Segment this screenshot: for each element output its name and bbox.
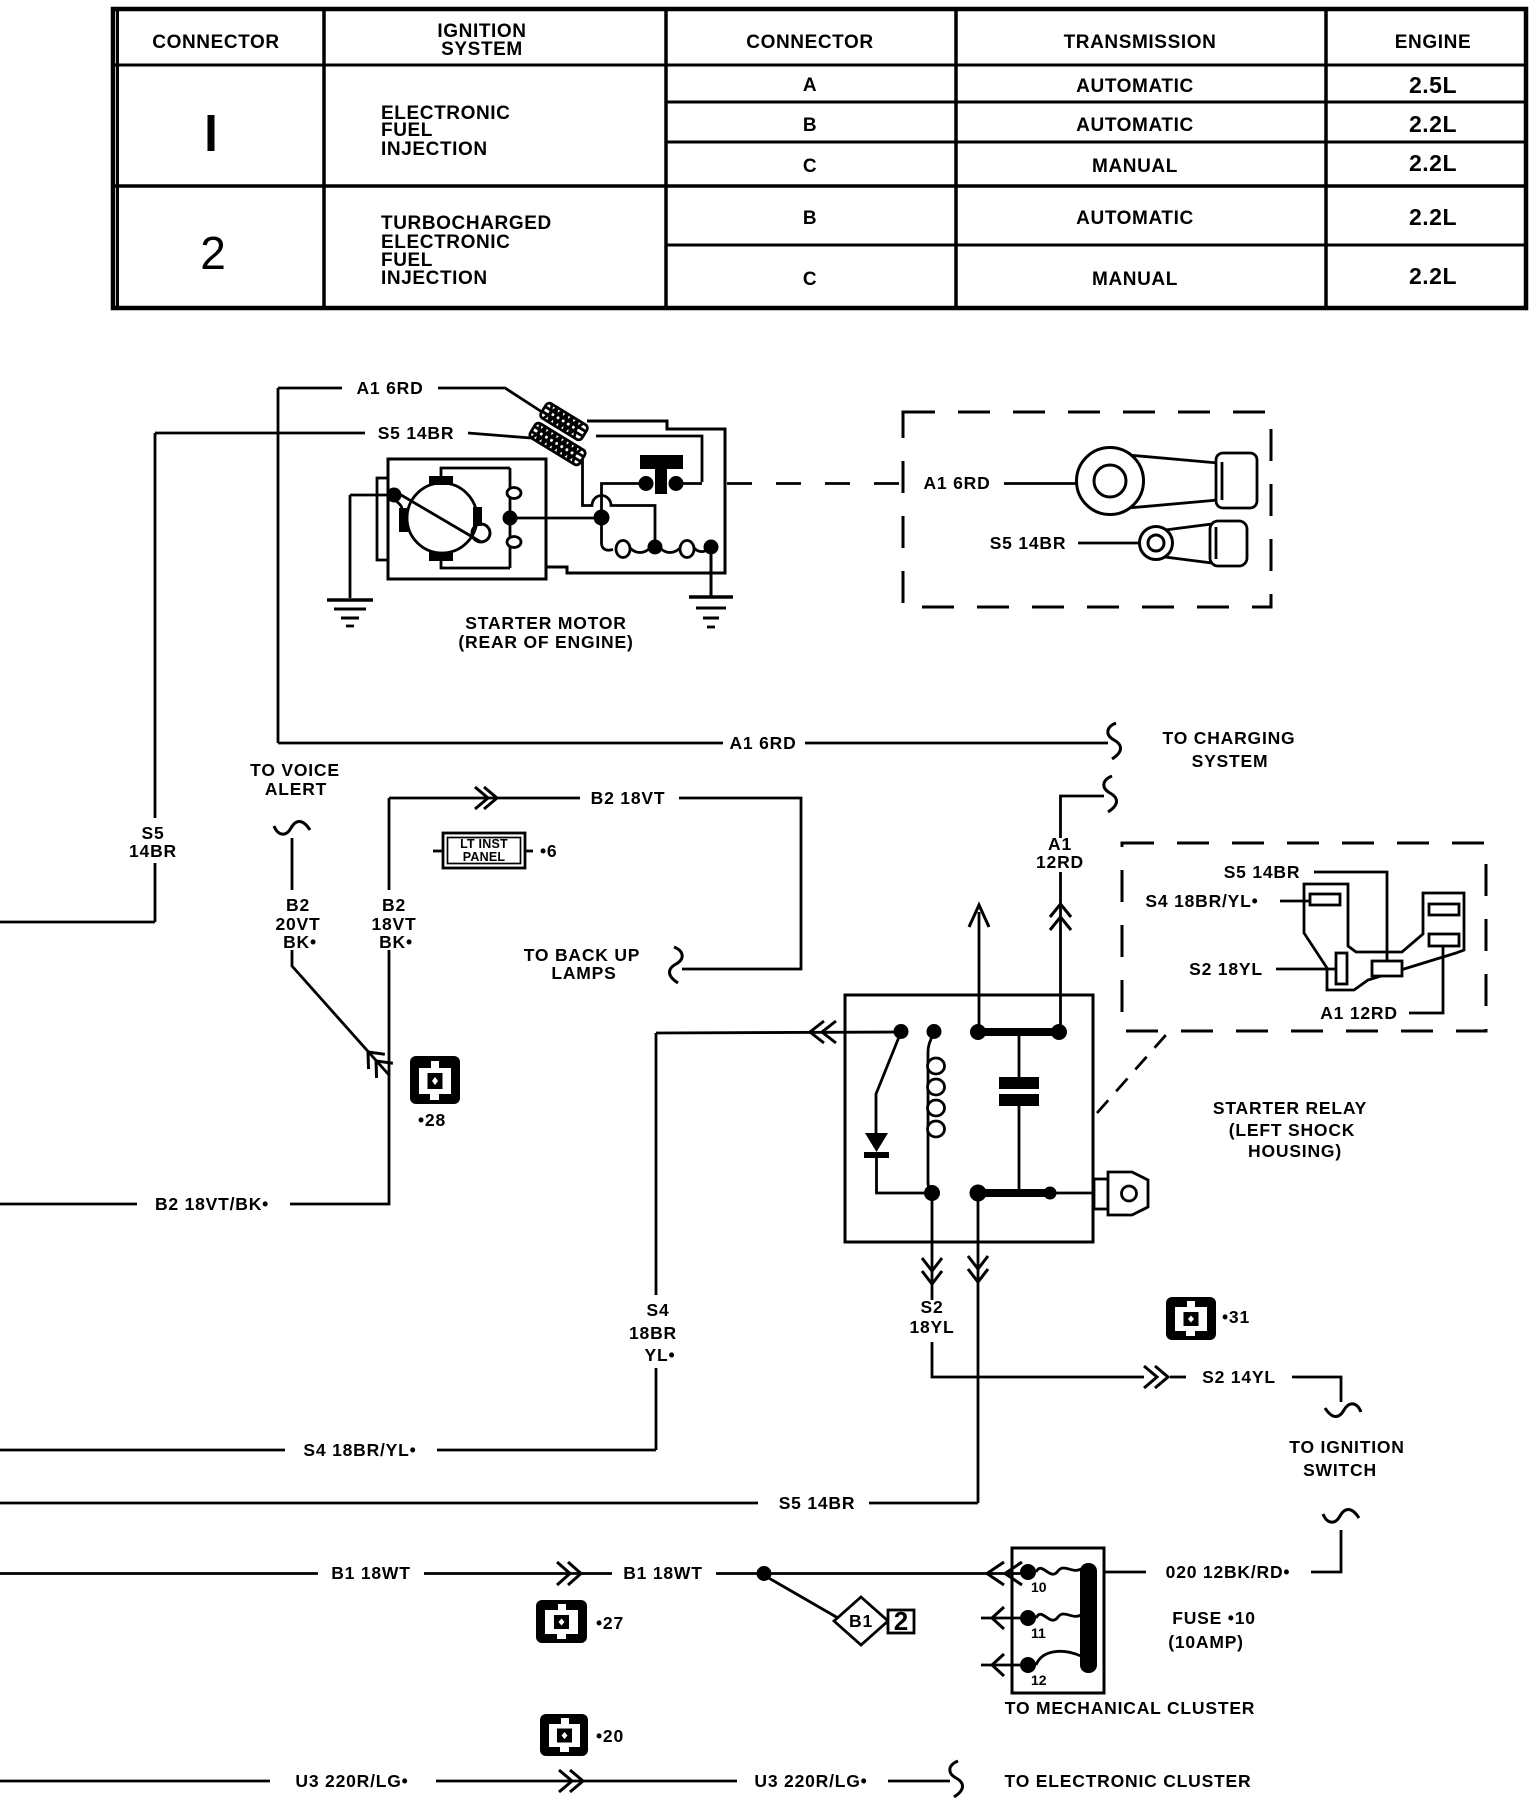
wire 020 12BK/RD to corner up xyxy=(1311,1530,1341,1572)
svg-text:18YL: 18YL xyxy=(909,1317,954,1337)
chevrons right S2 14YL xyxy=(1144,1366,1168,1388)
svg-text:B: B xyxy=(803,115,817,136)
svg-text:AUTOMATIC: AUTOMATIC xyxy=(1076,115,1194,136)
svg-text:LT INST: LT INST xyxy=(460,837,508,851)
svg-text:2.2L: 2.2L xyxy=(1409,263,1457,289)
capacitor bottom lead xyxy=(1018,1106,1021,1193)
coil wave 2 xyxy=(630,548,650,553)
svg-text:INJECTION: INJECTION xyxy=(381,268,488,289)
wire A1 vertical drop xyxy=(277,388,280,743)
wire S4 horizontal right xyxy=(437,1449,656,1452)
svg-text:TRANSMISSION: TRANSMISSION xyxy=(1064,32,1217,53)
wire to ring terminal S5 xyxy=(1078,542,1140,545)
TABLE xyxy=(113,9,1526,308)
svg-text:PANEL: PANEL xyxy=(463,850,506,864)
svg-text:2.2L: 2.2L xyxy=(1409,204,1457,230)
wire S5 drop into solenoid xyxy=(583,459,656,541)
relay connector body xyxy=(1304,884,1464,990)
wire to ring terminal A1 xyxy=(1004,482,1078,485)
wire U3 left xyxy=(0,1780,270,1783)
relay coil bottom dot xyxy=(924,1185,940,1201)
svg-text:•27: •27 xyxy=(596,1613,624,1633)
svg-text:AUTOMATIC: AUTOMATIC xyxy=(1076,76,1194,97)
svg-text:S4: S4 xyxy=(646,1300,669,1320)
fuse link 12 xyxy=(1036,1651,1081,1665)
fuse link 11 xyxy=(1036,1614,1081,1620)
chevrons down S5 xyxy=(968,1256,988,1282)
wire motor ground drop xyxy=(349,495,352,598)
wire S4 horizontal left xyxy=(0,1449,285,1452)
svg-text:U3 220R/LG•: U3 220R/LG• xyxy=(754,1771,867,1791)
svg-text:S4 18BR/YL•: S4 18BR/YL• xyxy=(303,1440,416,1460)
starter motor case xyxy=(388,459,546,579)
ring terminal S5 cap xyxy=(1210,521,1247,566)
svg-text:TO IGNITION: TO IGNITION xyxy=(1289,1437,1404,1457)
relay spade lug xyxy=(1094,1179,1108,1209)
wire B2 18VT/BK vertical upper xyxy=(388,798,391,890)
svg-text:A1 12RD: A1 12RD xyxy=(1320,1003,1398,1023)
svg-text:A1 6RD: A1 6RD xyxy=(356,378,423,398)
wire S4 vertical lower xyxy=(655,1368,658,1450)
svg-text:B2 18VT: B2 18VT xyxy=(591,788,666,808)
svg-text:2.5L: 2.5L xyxy=(1409,72,1457,98)
wire S4 vertical upper xyxy=(655,1033,658,1295)
field winding loop 1 xyxy=(507,488,521,499)
svg-text:•6: •6 xyxy=(540,841,557,861)
chevrons on diagonal xyxy=(360,1045,393,1078)
wire contact left to junction xyxy=(602,484,641,518)
svg-text:B2 18VT/BK•: B2 18VT/BK• xyxy=(155,1194,269,1214)
grommet 28 xyxy=(410,1056,460,1104)
solenoid contact dot right xyxy=(669,476,684,491)
wire B1 18WT mid xyxy=(424,1572,612,1575)
svg-text:•31: •31 xyxy=(1222,1307,1250,1327)
solenoid contact T stem xyxy=(655,469,667,494)
svg-text:A1 6RD: A1 6RD xyxy=(923,473,990,493)
wire S5 14BR to starter left segment xyxy=(155,432,365,435)
table row line group 1/2 xyxy=(113,184,1526,188)
table header bottom line xyxy=(113,64,1526,67)
ring terminal A1 eye xyxy=(1077,448,1144,515)
svg-text:(LEFT SHOCK: (LEFT SHOCK xyxy=(1229,1120,1355,1140)
svg-text:C: C xyxy=(803,156,817,177)
wire S5 to relay drop xyxy=(869,1502,978,1505)
grommet 20 xyxy=(540,1714,588,1756)
svg-text:2: 2 xyxy=(894,1606,908,1636)
wire A1 12RD vertical to relay xyxy=(1059,872,1062,1032)
wire A1 6RD long horizontal right xyxy=(805,742,1108,745)
motor input curve to brush xyxy=(396,501,402,511)
svg-text:14BR: 14BR xyxy=(129,841,177,861)
wire S5 long horizontal xyxy=(0,1502,758,1505)
diode lead lower xyxy=(877,1158,927,1193)
motor input junction dot xyxy=(387,488,402,503)
solenoid contact T bar xyxy=(640,455,683,469)
svg-text:TO ELECTRONIC CLUSTER: TO ELECTRONIC CLUSTER xyxy=(1005,1771,1252,1791)
wire A1 6RD label left segment xyxy=(278,387,342,390)
wire contact right to frame xyxy=(676,482,702,485)
svg-text:B1 18WT: B1 18WT xyxy=(331,1563,411,1583)
fuse terminal dot 11 xyxy=(1020,1610,1036,1626)
field winding loop 2 xyxy=(507,537,521,548)
wire S5 vertical drop lower xyxy=(154,863,157,922)
relay coil loop 3 xyxy=(928,1100,945,1116)
wire S4 into relay xyxy=(656,1032,901,1033)
diode bar xyxy=(864,1152,889,1158)
wire stub pin 11 xyxy=(981,1617,1020,1620)
break symbol to electronic cluster xyxy=(950,1761,963,1797)
dashed wire solenoid to connector box xyxy=(727,482,901,485)
capacitor plate 2 xyxy=(999,1094,1039,1106)
fuse box xyxy=(1012,1548,1104,1693)
wire B2 20VT lower diagonal xyxy=(292,950,389,1075)
svg-text:SYSTEM: SYSTEM xyxy=(441,39,523,60)
svg-text:U3 220R/LG•: U3 220R/LG• xyxy=(295,1771,408,1791)
svg-text:HOUSING): HOUSING) xyxy=(1248,1141,1342,1161)
chevrons right B1 xyxy=(557,1562,581,1585)
relay top bus bar xyxy=(978,1028,1059,1036)
relay switch arm xyxy=(876,1032,901,1133)
svg-text:YL•: YL• xyxy=(645,1345,676,1365)
svg-text:S5 14BR: S5 14BR xyxy=(378,423,455,443)
wire B2 18VT to corner xyxy=(679,798,801,969)
svg-text:A1 6RD: A1 6RD xyxy=(729,733,796,753)
svg-text:TO CHARGING: TO CHARGING xyxy=(1163,728,1296,748)
table outer border xyxy=(113,9,1526,308)
relay connector terminal lower right xyxy=(1429,934,1459,946)
wire S2 14YL to corner down xyxy=(1292,1377,1341,1402)
relay connector terminal upper right xyxy=(1429,904,1459,915)
capacitor plate 1 xyxy=(999,1077,1039,1089)
LT INST PANEL box xyxy=(443,833,525,868)
wire S2 below relay xyxy=(931,1193,934,1300)
solenoid pull-in coil xyxy=(602,518,614,551)
svg-text:S2: S2 xyxy=(920,1297,943,1317)
coil loop 2 xyxy=(680,541,694,558)
svg-text:S4 18BR/YL•: S4 18BR/YL• xyxy=(1145,891,1258,911)
svg-text:12: 12 xyxy=(1031,1672,1047,1688)
svg-text:S2 18YL: S2 18YL xyxy=(1189,959,1263,979)
splice connector A1 (hatched) xyxy=(539,402,589,442)
solenoid junction dot xyxy=(594,510,610,526)
solenoid contact dot left xyxy=(639,476,654,491)
svg-text:MANUAL: MANUAL xyxy=(1092,156,1178,177)
wire bus to lug xyxy=(1050,1192,1096,1195)
break symbol to ignition switch lower xyxy=(1323,1509,1359,1522)
relay coil feed curve xyxy=(928,1032,934,1194)
svg-text:SYSTEM: SYSTEM xyxy=(1192,751,1269,771)
coil end dot xyxy=(704,540,719,555)
relay connector terminal S2 xyxy=(1336,953,1347,984)
ground motor xyxy=(327,600,373,626)
svg-text:BK•: BK• xyxy=(379,932,413,952)
chevron left pin 12 xyxy=(992,1654,1004,1676)
svg-text:STARTER MOTOR: STARTER MOTOR xyxy=(465,613,626,633)
coil loop 1 xyxy=(616,541,630,558)
wire A1 6RD label right segment xyxy=(438,388,542,412)
chevrons right U3 xyxy=(559,1770,583,1792)
svg-text:(REAR OF ENGINE): (REAR OF ENGINE) xyxy=(458,632,633,652)
capacitor top lead xyxy=(1018,1032,1021,1077)
table row line A/B xyxy=(666,101,1526,104)
table column divider 4 xyxy=(1324,9,1328,308)
wire B1 18WT right xyxy=(716,1572,1028,1575)
wire S4 into relay connector xyxy=(1280,900,1311,903)
ground solenoid xyxy=(689,597,733,627)
svg-text:10: 10 xyxy=(1031,1579,1047,1595)
wire U3 right xyxy=(888,1780,950,1783)
svg-text:S5 14BR: S5 14BR xyxy=(779,1493,856,1513)
svg-text:12RD: 12RD xyxy=(1036,852,1084,872)
starter motor brush holder tab xyxy=(377,478,388,560)
wire field to solenoid xyxy=(510,517,602,520)
svg-text:C: C xyxy=(803,269,817,290)
dashed leader relay to connector xyxy=(1097,1028,1172,1113)
wire S2 to corner xyxy=(932,1342,1144,1377)
wire S5 horizontal to left edge xyxy=(0,921,155,924)
LT INST PANEL stubs xyxy=(433,850,443,853)
svg-text:11: 11 xyxy=(1031,1625,1046,1641)
chevrons up A1 12RD xyxy=(1050,904,1071,930)
break symbol to back up lamps xyxy=(669,947,682,983)
svg-text:CONNECTOR: CONNECTOR xyxy=(746,32,874,53)
svg-text:TO MECHANICAL CLUSTER: TO MECHANICAL CLUSTER xyxy=(1005,1698,1255,1718)
brush pad bottom xyxy=(429,552,453,561)
diode triangle xyxy=(865,1133,888,1152)
svg-text:20VT: 20VT xyxy=(275,914,320,934)
fuse link 10 xyxy=(1036,1568,1081,1574)
starter relay box xyxy=(845,995,1093,1242)
svg-text:2.2L: 2.2L xyxy=(1409,111,1457,137)
svg-text:B1 18WT: B1 18WT xyxy=(623,1563,703,1583)
table row line B/C group 2 xyxy=(666,244,1526,247)
chevrons right B2 18VT xyxy=(475,787,497,809)
svg-text:SWITCH: SWITCH xyxy=(1303,1460,1377,1480)
svg-text:ALERT: ALERT xyxy=(265,779,327,799)
chevrons down S2 xyxy=(922,1258,942,1284)
field winding coil edge xyxy=(509,468,512,568)
svg-text:TURBOCHARGED: TURBOCHARGED xyxy=(381,213,552,234)
wire S5 14BR to splice xyxy=(468,433,531,438)
break symbol to charging system xyxy=(1108,723,1121,759)
svg-text:INJECTION: INJECTION xyxy=(381,139,488,160)
wire stub pin 12 xyxy=(981,1664,1020,1667)
wire A1 12RD corner xyxy=(1061,796,1105,838)
splice connector S5 (hatched) xyxy=(528,422,586,467)
svg-text:MANUAL: MANUAL xyxy=(1092,269,1178,290)
svg-text:B2: B2 xyxy=(382,895,406,915)
wire S5 into relay connector xyxy=(1314,872,1387,961)
armature small circle xyxy=(472,524,490,542)
chevrons left S4 wire xyxy=(810,1021,836,1043)
svg-text:18VT: 18VT xyxy=(371,914,416,934)
wire relay branch up arrow xyxy=(978,912,981,1032)
fuse terminal dot 10 xyxy=(1020,1564,1036,1580)
svg-text:S2 14YL: S2 14YL xyxy=(1202,1367,1276,1387)
wire into motor xyxy=(350,494,388,497)
wire B2 18VT horizontal xyxy=(389,797,580,800)
fuse terminal dot 12 xyxy=(1020,1657,1036,1673)
table column divider 2 xyxy=(664,9,668,308)
wire S2 into relay connector xyxy=(1276,968,1336,971)
svg-text:FUEL: FUEL xyxy=(381,120,433,141)
cell connector 1 glyph xyxy=(208,115,215,151)
wire diagonal to diamond xyxy=(767,1577,838,1618)
relay coil loop 1 xyxy=(928,1058,945,1074)
relay connector terminal middle xyxy=(1372,961,1402,976)
junction dot B1 xyxy=(757,1566,772,1581)
svg-text:B2: B2 xyxy=(286,895,310,915)
wire B2 20VT upper xyxy=(291,838,294,890)
chevrons left fuse feed xyxy=(987,1562,1022,1585)
coil wave 3 xyxy=(660,548,680,553)
brush pad right xyxy=(473,507,482,526)
break symbol to ignition switch upper xyxy=(1325,1404,1361,1417)
svg-text:ENGINE: ENGINE xyxy=(1395,32,1471,53)
svg-text:S5 14BR: S5 14BR xyxy=(1224,862,1301,882)
coil wave 4 xyxy=(694,546,711,552)
svg-text:S5 14BR: S5 14BR xyxy=(990,533,1067,553)
dashed box relay connector xyxy=(1122,843,1486,1031)
solenoid inner boundary xyxy=(596,436,702,482)
brush pad top xyxy=(429,476,453,485)
relay coil loop 2 xyxy=(928,1079,945,1095)
table row line B/C xyxy=(666,141,1526,144)
svg-text:A1: A1 xyxy=(1048,834,1072,854)
table column divider 1 xyxy=(322,9,326,308)
svg-text:2.2L: 2.2L xyxy=(1409,150,1457,176)
ring terminal S5 eye xyxy=(1140,527,1173,560)
ring terminal S5 body xyxy=(1165,524,1212,563)
table column divider 3 xyxy=(954,9,958,308)
wire 020 12BK/RD left xyxy=(1104,1571,1146,1574)
wire solenoid ground drop xyxy=(710,547,713,596)
flag box 2 xyxy=(888,1610,914,1633)
svg-text:2: 2 xyxy=(200,227,226,279)
svg-text:A: A xyxy=(803,75,817,96)
break symbol A1 12RD to charging xyxy=(1104,776,1117,812)
svg-text:B: B xyxy=(803,208,817,229)
ring terminal A1 cap xyxy=(1216,453,1257,508)
svg-text:CONNECTOR: CONNECTOR xyxy=(152,32,280,53)
relay coil loop 4 xyxy=(928,1121,945,1137)
svg-text:•20: •20 xyxy=(596,1726,624,1746)
field winding tap dot xyxy=(503,511,518,526)
arrowhead up xyxy=(969,905,989,927)
wire S5 below relay xyxy=(977,1193,980,1503)
svg-text:(10AMP): (10AMP) xyxy=(1168,1632,1244,1652)
relay connector terminal S4 xyxy=(1310,894,1340,905)
grommet 27 xyxy=(536,1600,587,1643)
wire U3 mid xyxy=(436,1780,737,1783)
svg-text:•28: •28 xyxy=(418,1110,446,1130)
field winding frame xyxy=(441,468,510,568)
svg-text:TO BACK UP: TO BACK UP xyxy=(524,945,641,965)
ring terminal A1 body xyxy=(1128,455,1218,508)
relay bottom bus bar xyxy=(978,1189,1050,1197)
svg-text:BK•: BK• xyxy=(283,932,317,952)
svg-text:AUTOMATIC: AUTOMATIC xyxy=(1076,208,1194,229)
svg-text:TO VOICE: TO VOICE xyxy=(250,760,340,780)
svg-text:LAMPS: LAMPS xyxy=(551,963,616,983)
armature diagonal xyxy=(396,492,481,542)
wire S5 vertical drop upper xyxy=(154,433,157,818)
wire A1 into relay connector xyxy=(1409,945,1443,1013)
grommet 31 xyxy=(1166,1297,1216,1340)
svg-text:FUSE •10: FUSE •10 xyxy=(1172,1608,1256,1628)
svg-text:B1: B1 xyxy=(849,1611,873,1631)
fuse bus bar xyxy=(1080,1563,1097,1673)
coil mid dot xyxy=(648,540,663,555)
wire B2 18VT/BK vertical lower xyxy=(290,950,389,1204)
svg-text:18BR: 18BR xyxy=(629,1323,677,1343)
dashed box starter connectors xyxy=(903,412,1271,607)
chevron left pin 11 xyxy=(992,1607,1004,1629)
wire B1 18WT left xyxy=(0,1572,318,1575)
break symbol to voice alert xyxy=(274,821,310,834)
wire A1 6RD long horizontal left xyxy=(278,742,723,745)
wire into S2 14YL label xyxy=(1170,1376,1186,1379)
wire B2 18VT/BK to left edge xyxy=(0,1203,137,1206)
svg-text:S5: S5 xyxy=(141,823,164,843)
brush pad left xyxy=(399,508,408,532)
svg-text:020 12BK/RD•: 020 12BK/RD• xyxy=(1166,1562,1291,1582)
diamond B1 reference xyxy=(834,1597,888,1645)
ring terminal S5 crimp xyxy=(1215,527,1218,559)
armature circle xyxy=(407,483,477,553)
relay switch dot 2 xyxy=(927,1024,942,1039)
svg-text:STARTER RELAY: STARTER RELAY xyxy=(1213,1098,1367,1118)
solenoid outer boundary xyxy=(546,421,725,573)
relay switch dot 1 xyxy=(894,1024,909,1039)
ring terminal A1 crimp xyxy=(1221,462,1224,500)
